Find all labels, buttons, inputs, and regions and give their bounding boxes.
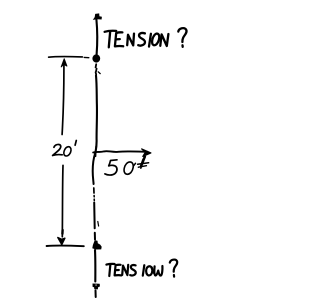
wire: upper cable segment xyxy=(95,19,98,54)
letter T xyxy=(106,263,114,266)
label TENSION ? (top) xyxy=(105,28,187,47)
label TENSION? (bottom) xyxy=(106,260,177,277)
letter I xyxy=(143,265,145,275)
wire: dashed bits below dot xyxy=(95,64,98,67)
letter S xyxy=(138,33,145,46)
letter T xyxy=(105,31,117,32)
dimension line lower segment xyxy=(61,165,64,237)
letter N xyxy=(127,34,134,46)
letter N xyxy=(160,34,168,46)
wire: bottom cable segment xyxy=(94,250,96,282)
dimension arrowhead (down) xyxy=(58,238,65,245)
letter E xyxy=(115,265,122,276)
wire: cable middle segment xyxy=(96,76,97,152)
dimension arrowhead (up) xyxy=(61,59,67,67)
letter I xyxy=(149,34,151,47)
letter S xyxy=(130,265,136,275)
dimension bottom tick xyxy=(47,245,84,248)
label 20' : digit 2 xyxy=(53,144,63,155)
load arrow: small tail tick xyxy=(95,146,97,156)
node: attachment dot on cable xyxy=(92,54,100,62)
load arrowhead tail flick xyxy=(143,156,144,159)
bottom tension arrowhead (up) at y~245 xyxy=(92,240,101,249)
question mark xyxy=(170,260,177,272)
label 20' : prime mark xyxy=(75,141,76,146)
wire: small flick right of cable xyxy=(98,72,100,74)
load arrow: horizontal shaft xyxy=(93,151,147,152)
top tension arrowhead (up) xyxy=(93,13,102,20)
question mark xyxy=(178,28,186,42)
label 50 : digit 0 xyxy=(124,162,133,174)
label 50 : digit 5 xyxy=(105,160,117,175)
dimension line upper segment xyxy=(62,61,64,135)
load arrowhead (right) xyxy=(142,149,151,157)
wire: stray flick beside cable xyxy=(97,222,100,227)
label 20' : digit 0 xyxy=(64,147,71,156)
wire: cable lower segment (junction to lower arrow) xyxy=(93,153,96,184)
dimension top tick xyxy=(49,56,83,59)
bottom tension arrowhead (down) xyxy=(93,284,100,290)
wire: overshoot stroke below arrowhead xyxy=(95,291,97,298)
letter O xyxy=(146,266,154,275)
letter E xyxy=(115,32,123,46)
letter O xyxy=(152,34,159,46)
letter N xyxy=(154,266,162,275)
letter N xyxy=(122,265,128,275)
label # (pounds) xyxy=(134,157,149,169)
